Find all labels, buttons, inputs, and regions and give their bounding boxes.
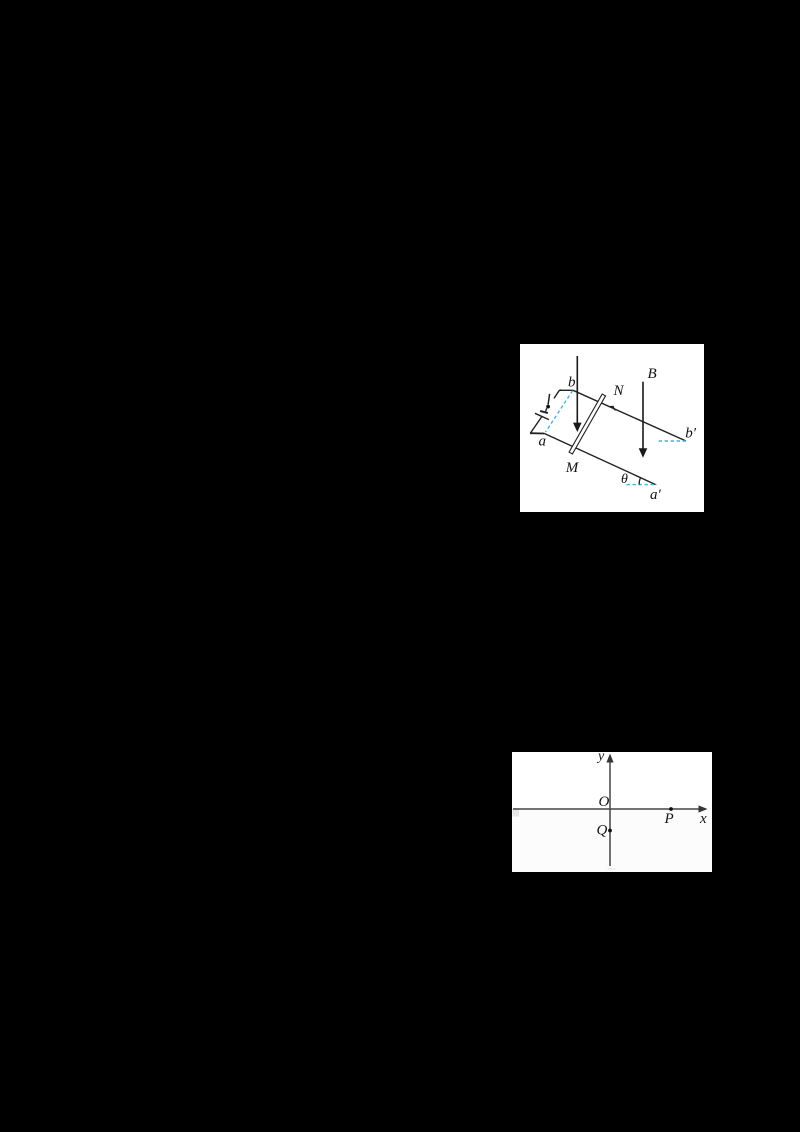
y axis <box>609 760 611 866</box>
field arrow left <box>576 356 578 425</box>
wire top horizontal from loop corner to node b <box>560 389 574 391</box>
x axis arrowhead <box>699 805 708 812</box>
svg-text:P: P <box>664 811 674 827</box>
battery plate long <box>535 413 549 419</box>
wire left side of source loop <box>554 390 561 399</box>
dashed horizontal at b' <box>659 440 686 442</box>
rail bottom a to a' <box>544 434 655 485</box>
svg-text:N: N <box>613 383 625 399</box>
small smudge at y-axis bottom <box>608 868 616 870</box>
faint lower half tint <box>512 810 712 872</box>
svg-text:θ: θ <box>621 472 628 487</box>
rail top b to b' <box>573 390 686 441</box>
figure 2: xy coordinate axes with points P and Q <box>512 752 712 872</box>
wire switch to battery <box>546 408 547 411</box>
svg-text:b′: b′ <box>685 425 697 441</box>
svg-text:Q: Q <box>597 823 608 839</box>
field arrow B right <box>642 382 644 450</box>
dashed initial rod position b to a <box>546 391 573 432</box>
switch pivot dot <box>546 405 550 409</box>
wire battery to bottom corner <box>530 417 542 434</box>
svg-text:O: O <box>599 794 610 810</box>
svg-text:b: b <box>568 375 576 391</box>
y axis arrowhead <box>606 754 613 763</box>
svg-text:y: y <box>596 752 605 764</box>
svg-text:B: B <box>648 366 657 382</box>
svg-text:a′: a′ <box>650 487 662 503</box>
point P dot <box>669 807 673 811</box>
wire bottom horizontal to node a <box>530 432 544 434</box>
rod MN white bar <box>569 394 605 454</box>
svg-text:a: a <box>539 434 547 450</box>
angle arc theta <box>639 478 640 485</box>
x axis <box>513 808 701 810</box>
current direction mark on top rail <box>610 406 616 411</box>
svg-text:x: x <box>699 811 707 827</box>
battery plate short <box>540 411 548 413</box>
point Q dot <box>608 829 612 833</box>
dashed horizontal at a' <box>627 484 658 486</box>
gray square artifact at left edge <box>513 808 520 817</box>
figure 1: inclined rails with rod MN <box>520 344 704 512</box>
svg-text:M: M <box>565 460 580 476</box>
switch blade <box>548 394 550 405</box>
